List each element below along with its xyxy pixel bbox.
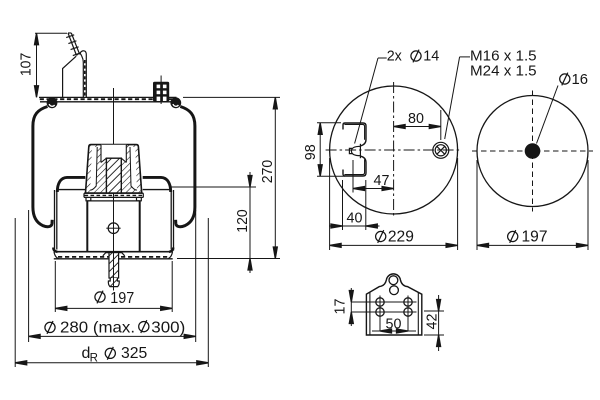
svg-text:R: R (90, 352, 98, 364)
svg-text:2x: 2x (387, 49, 402, 65)
cavity inner lines (90, 147, 97, 190)
svg-text:197: 197 (522, 228, 548, 245)
svg-text:325: 325 (121, 345, 147, 362)
svg-text:14: 14 (423, 49, 439, 65)
label dia16 (537, 86, 559, 144)
svg-text:229: 229 (388, 228, 414, 245)
dim dia280 max300 (29, 210, 196, 342)
svg-text:280 (max.: 280 (max. (60, 320, 135, 337)
bottom stud (109, 253, 119, 278)
dim 270 (177, 97, 280, 258)
centerlines (326, 149, 462, 151)
dim 42 (424, 295, 444, 351)
fitting circle with cross (433, 142, 449, 158)
piston cone (trapezoid) with hatch (86, 145, 142, 193)
central stud (106, 158, 121, 193)
dashed crosshairs (472, 150, 593, 152)
dim dia197 (right) (477, 160, 588, 250)
svg-text:270: 270 (260, 160, 276, 184)
svg-text:40: 40 (347, 211, 363, 227)
svg-text:47: 47 (374, 173, 390, 189)
bracket plate outline (366, 274, 421, 335)
dim 17 (350, 288, 352, 326)
bracket (upper, side view) (63, 33, 87, 97)
svg-text:M16 x 1.5: M16 x 1.5 (470, 48, 537, 64)
circle cross on body (108, 223, 119, 234)
svg-text:80: 80 (408, 111, 424, 127)
svg-text:50: 50 (386, 316, 402, 332)
bracket bolt (349, 144, 360, 158)
centerline axis (113, 88, 115, 252)
piston body (87, 200, 139, 202)
bolt holes with crosses (351, 296, 416, 332)
svg-text:98: 98 (303, 144, 319, 160)
dim dia197 (left bottom) (55, 261, 172, 312)
bellow outer wall left (33, 107, 52, 227)
center hole dia16 (525, 143, 541, 159)
svg-text:42: 42 (424, 314, 440, 330)
svg-text:16: 16 (572, 71, 589, 88)
svg-text:107: 107 (19, 53, 35, 77)
bellow roll over piston, right (143, 177, 171, 192)
label 2x dia14 (355, 58, 387, 144)
svg-text:120: 120 (235, 209, 251, 233)
svg-text:300): 300) (151, 320, 185, 337)
top plate (39, 96, 177, 98)
dim 80 (394, 110, 441, 140)
dim 40 (329, 180, 380, 230)
bellow outer wall right (176, 107, 195, 227)
svg-text:17: 17 (332, 299, 348, 315)
svg-text:197: 197 (110, 290, 134, 307)
svg-text:M24 x 1.5: M24 x 1.5 (470, 63, 537, 79)
dim dR 325 (15, 218, 208, 367)
beads (47, 97, 58, 108)
bottom plate (54, 251, 173, 253)
plate boss + white notch under stud (103, 253, 125, 256)
dim 98 (317, 123, 345, 177)
top holes (389, 276, 398, 285)
dim dia229 (330, 158, 458, 250)
white cavity slots (90, 147, 97, 190)
dim 120 (169, 172, 256, 273)
dim 47 (353, 160, 394, 193)
main circle (top view dia229) (330, 86, 458, 214)
label M16/M24 (445, 57, 470, 139)
piston flange (84, 192, 143, 194)
channel bracket (top view) (343, 123, 366, 176)
circle (piston top view dia197) (477, 96, 588, 207)
dimension 107 (35, 33, 67, 97)
dim 50 (372, 330, 416, 332)
air fitting block on plate (153, 76, 169, 105)
bellow roll over piston, left (57, 177, 85, 192)
